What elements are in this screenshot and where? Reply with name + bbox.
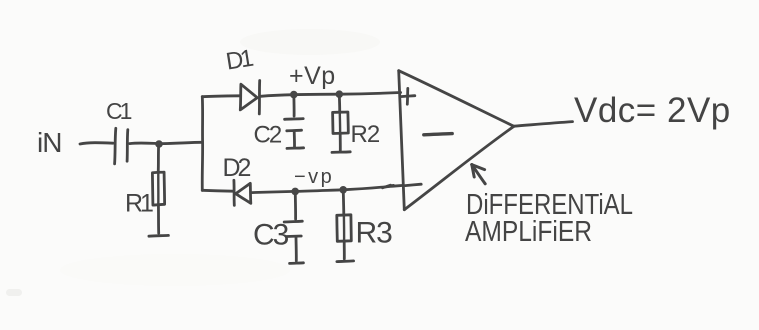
svg-text:iN: iN [37,127,61,158]
svg-text:R1: R1 [125,190,153,218]
svg-text:−vp: −vp [294,166,334,188]
svg-text:R3: R3 [356,217,393,250]
svg-text:C1: C1 [106,98,132,124]
svg-text:C3: C3 [253,219,289,252]
svg-text:AMPLiFiER: AMPLiFiER [465,216,592,248]
svg-text:Vdc= 2Vp: Vdc= 2Vp [574,91,731,130]
svg-text:R2: R2 [351,121,380,148]
svg-text:D2: D2 [223,154,251,182]
svg-text:+Vp: +Vp [289,62,336,90]
svg-text:C2: C2 [254,122,282,149]
